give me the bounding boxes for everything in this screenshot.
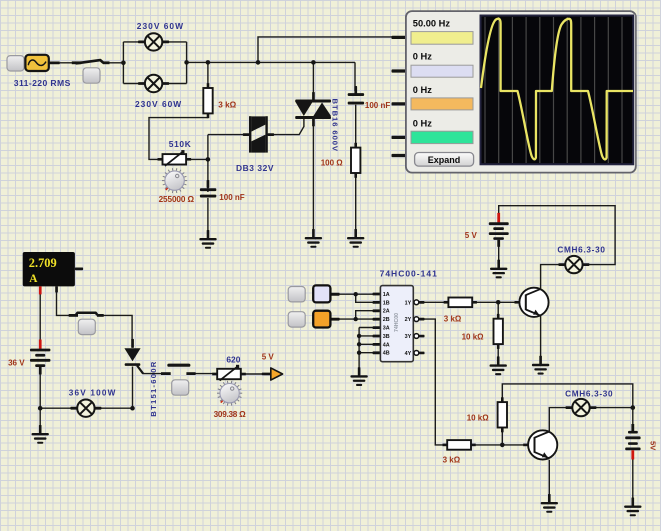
svg-text:100 nF: 100 nF [365, 101, 390, 110]
svg-text:3A: 3A [383, 326, 390, 332]
svg-text:10 kΩ: 10 kΩ [462, 333, 485, 342]
svg-text:BT151-600R: BT151-600R [149, 361, 158, 416]
svg-text:510K: 510K [169, 139, 191, 149]
svg-text:1A: 1A [383, 292, 390, 298]
svg-text:0 Hz: 0 Hz [413, 85, 432, 95]
svg-text:311-220 RMS: 311-220 RMS [14, 78, 71, 88]
svg-text:100 nF: 100 nF [219, 193, 244, 202]
svg-text:620: 620 [226, 354, 240, 364]
svg-text:3B: 3B [383, 334, 390, 340]
svg-text:2Y: 2Y [405, 317, 412, 323]
svg-text:1B: 1B [383, 300, 390, 306]
svg-text:5V: 5V [649, 441, 658, 451]
svg-text:3 kΩ: 3 kΩ [218, 100, 236, 109]
svg-text:100 Ω: 100 Ω [321, 159, 344, 168]
svg-text:CMH6.3-30: CMH6.3-30 [557, 245, 605, 254]
svg-text:0 Hz: 0 Hz [413, 52, 432, 62]
svg-text:36V 100W: 36V 100W [69, 389, 116, 398]
svg-text:10 kΩ: 10 kΩ [467, 413, 490, 422]
svg-text:0 Hz: 0 Hz [413, 118, 432, 128]
svg-text:3 kΩ: 3 kΩ [444, 314, 462, 323]
svg-text:A: A [29, 273, 38, 285]
svg-text:5 V: 5 V [465, 231, 478, 240]
svg-text:Expand: Expand [428, 155, 461, 165]
svg-text:BTB16 600V: BTB16 600V [331, 99, 340, 152]
svg-text:36 V: 36 V [8, 359, 25, 368]
svg-text:2A: 2A [383, 309, 390, 315]
svg-text:230V 60W: 230V 60W [135, 99, 181, 109]
svg-text:3 kΩ: 3 kΩ [443, 456, 461, 465]
svg-text:309.38 Ω: 309.38 Ω [214, 410, 247, 419]
svg-text:74HC00: 74HC00 [394, 313, 400, 332]
svg-text:74HC00-141: 74HC00-141 [380, 269, 437, 279]
svg-text:50.00 Hz: 50.00 Hz [413, 18, 451, 28]
svg-text:4B: 4B [383, 351, 390, 357]
svg-text:4A: 4A [383, 342, 390, 348]
svg-text:1Y: 1Y [405, 300, 412, 306]
svg-text:5 V: 5 V [262, 352, 275, 361]
svg-text:3Y: 3Y [405, 334, 412, 340]
svg-text:CMH6.3-30: CMH6.3-30 [565, 390, 613, 399]
svg-text:2B: 2B [383, 317, 390, 323]
svg-text:230V 60W: 230V 60W [137, 21, 183, 31]
svg-text:DB3 32V: DB3 32V [236, 163, 274, 173]
svg-text:4Y: 4Y [405, 351, 412, 357]
svg-text:2.709: 2.709 [29, 256, 57, 270]
svg-text:255000 Ω: 255000 Ω [159, 195, 195, 204]
